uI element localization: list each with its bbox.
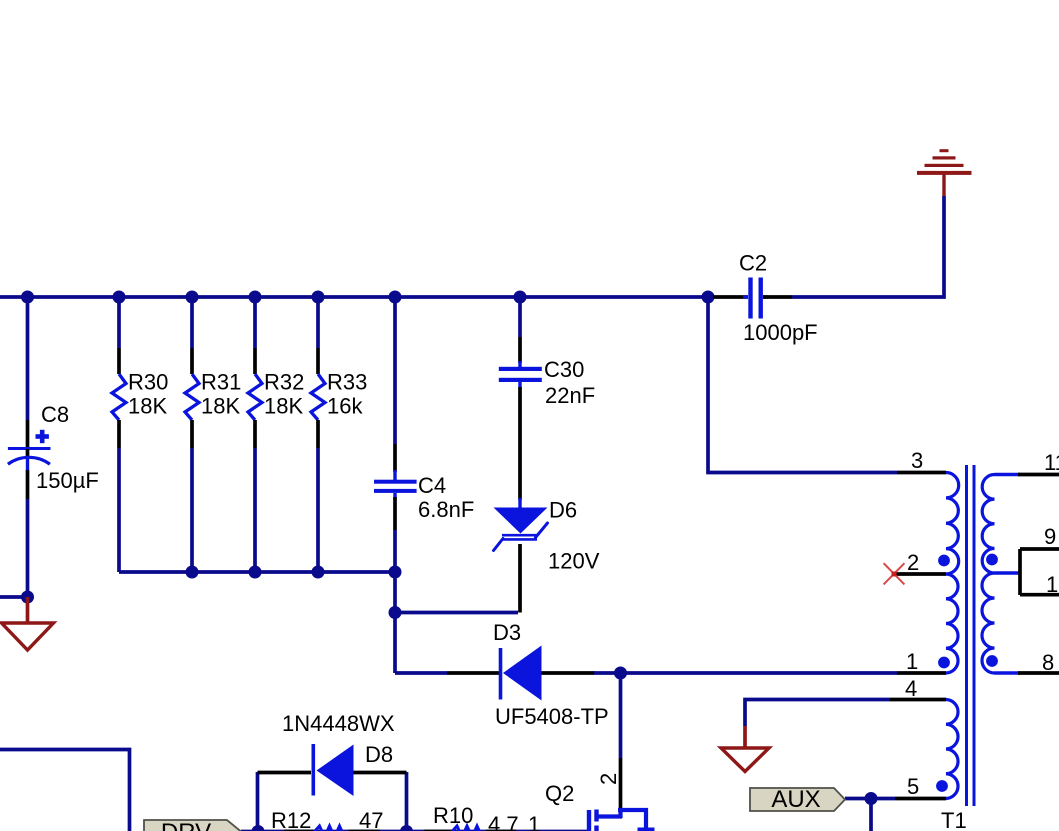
svg-text:18K: 18K [264, 394, 303, 419]
svg-text:47: 47 [359, 808, 383, 831]
svg-text:R32: R32 [264, 370, 304, 395]
T1 pin 3 [897, 448, 946, 473]
pin D6 bottom [518, 544, 522, 613]
svg-text:3: 3 [911, 448, 923, 473]
junction R31 bottom [186, 566, 199, 579]
svg-text:T1: T1 [941, 808, 967, 831]
svg-text:R12: R12 [271, 808, 311, 831]
svg-text:UF5408-TP: UF5408-TP [495, 704, 609, 729]
wire R33 top [316, 297, 320, 348]
T1 designator [941, 808, 967, 831]
junction AUX [865, 792, 878, 805]
wire R31 bottom [190, 448, 194, 572]
ground (C8) [2, 597, 54, 650]
wire C4 bottom [393, 530, 397, 572]
T1 primary winding 2-1 [946, 574, 958, 673]
T1 pin 9/10 bracket [1018, 549, 1022, 595]
T1 pin 10 [1020, 572, 1059, 597]
svg-text:AUX: AUX [771, 786, 820, 813]
capacitor C8 150µF [8, 402, 99, 499]
T1 polarity dot sec lower [986, 655, 998, 667]
wire AUX to T1 pin 5 [845, 797, 895, 801]
junction bus-C30 [514, 291, 527, 304]
junction C4-bus [389, 566, 402, 579]
svg-text:C4: C4 [418, 473, 446, 498]
svg-text:DRV: DRV [161, 819, 211, 831]
svg-text:150µF: 150µF [36, 468, 99, 493]
resistor R33 16k [311, 348, 367, 448]
wire R30 top [117, 297, 121, 348]
svg-text:5: 5 [907, 774, 919, 799]
svg-text:9: 9 [1044, 524, 1056, 549]
junction bus-C8 [21, 291, 34, 304]
T1 primary winding 3-2 [946, 473, 959, 575]
wire C4 top [393, 297, 397, 444]
junction R32 bottom [249, 566, 262, 579]
wire R32 bottom [253, 448, 257, 572]
T1 secondary winding 11-tap [982, 475, 994, 574]
T1 pin 5 [895, 774, 946, 799]
no-connect cross (T1 pin 2) [884, 563, 905, 584]
wire upper-left hook [0, 750, 130, 831]
T1 primary winding 4-5 [946, 700, 958, 799]
wire left edge to C8 ground node [0, 595, 28, 599]
wire C8 bottom [26, 499, 30, 597]
wire D3 node down to Q2 drain [619, 673, 623, 758]
svg-text:Q2: Q2 [545, 781, 574, 806]
diode D3 UF5408-TP [447, 620, 609, 729]
svg-text:R30: R30 [128, 370, 168, 395]
junction D8 right [400, 825, 413, 831]
svg-text:C2: C2 [739, 251, 767, 276]
wire T1 pin 4 to ground [745, 700, 890, 727]
junction D8 left [252, 825, 265, 831]
junction R33 bottom [312, 566, 325, 579]
wire resistor bottom bus [119, 570, 395, 574]
T1 polarity dot pin5 [936, 780, 948, 792]
junction bus-R33 [312, 291, 325, 304]
junction D3-Q2 [614, 667, 627, 680]
wire R33 bottom [316, 448, 320, 572]
port DRV [144, 819, 241, 831]
wire R30 bottom [117, 448, 121, 572]
earth ground (chassis) [917, 149, 972, 196]
junction C8-gnd [21, 591, 34, 604]
svg-text:2: 2 [596, 773, 621, 785]
junction bus-R32 [249, 291, 262, 304]
svg-text:D3: D3 [493, 620, 521, 645]
diode D8 1N4448WX [258, 711, 407, 796]
svg-text:10: 10 [1046, 572, 1059, 597]
svg-text:C30: C30 [544, 357, 584, 382]
junction bus-R30 [113, 291, 126, 304]
T1 pin 9 [1020, 524, 1059, 549]
wire R31 top [190, 297, 194, 348]
T1 polarity dot pin2 [938, 555, 950, 567]
junction bus-C4 [389, 291, 402, 304]
wire C2 right to earth riser [792, 196, 944, 297]
wire node C4 down to D3 row [393, 572, 397, 673]
junction D6 tap [389, 606, 402, 619]
capacitor C4 6.8nF [374, 444, 474, 530]
resistor R31 18K [185, 348, 241, 448]
wire R32 top [253, 297, 257, 348]
svg-text:4: 4 [905, 676, 917, 701]
junction bus-R31 [186, 291, 199, 304]
T1 pin 8 [995, 650, 1059, 675]
T1 polarity dot sec upper [986, 554, 998, 566]
resistor R32 18K [248, 348, 304, 448]
svg-text:120V: 120V [548, 549, 600, 574]
svg-text:R33: R33 [327, 370, 367, 395]
svg-text:D8: D8 [365, 742, 393, 767]
svg-text:1: 1 [906, 649, 918, 674]
transistor Q2 MOSFET [528, 758, 655, 831]
svg-text:C8: C8 [41, 402, 69, 427]
wire node bus to T1 pin 3 [708, 297, 897, 473]
svg-text:8: 8 [1042, 650, 1054, 675]
svg-text:R10: R10 [433, 803, 473, 828]
wire AUX node down [869, 799, 873, 831]
svg-text:R31: R31 [201, 370, 241, 395]
svg-text:1: 1 [528, 812, 540, 831]
capacitor C2 1000pF [713, 251, 818, 346]
resistor R12 47 [271, 808, 383, 831]
svg-text:6.8nF: 6.8nF [418, 497, 474, 522]
wire D8 right leg [405, 772, 409, 831]
resistor R10 4.7 [424, 803, 519, 831]
diode D6 120V TVS [494, 498, 600, 574]
transformer T1 core [967, 465, 975, 806]
svg-text:18K: 18K [128, 394, 167, 419]
wire D3 anode left [395, 671, 447, 675]
T1 pin 2 (n/c) [896, 550, 946, 575]
svg-text:1000pF: 1000pF [743, 320, 818, 345]
resistor R30 18K [112, 348, 168, 448]
wire C30 top [518, 297, 522, 337]
wire D3 cathode to T1 pin 1 [593, 671, 897, 675]
T1 pin 1 [897, 649, 946, 674]
svg-text:18K: 18K [201, 394, 240, 419]
T1 center tap [995, 571, 1022, 574]
wire main top bus [0, 295, 713, 299]
port AUX [750, 786, 845, 813]
wire bottom rail [241, 830, 589, 831]
svg-text:16k: 16k [327, 394, 363, 419]
wire C8 top [26, 297, 30, 420]
ground (T1 pin 4) [721, 726, 769, 772]
svg-text:D6: D6 [549, 498, 577, 523]
capacitor C30 22nF [499, 337, 595, 408]
T1 pin 4 [890, 676, 946, 701]
svg-text:22nF: 22nF [545, 383, 595, 408]
svg-text:2: 2 [907, 550, 919, 575]
pin C30 bottom / D6 top [518, 387, 522, 500]
T1 secondary winding tap-8 [982, 573, 995, 673]
wire D6 bottom tap [395, 611, 518, 615]
T1 pin 11 [995, 450, 1059, 475]
T1 polarity dot pin1 [938, 657, 950, 669]
svg-text:4.7: 4.7 [488, 812, 519, 831]
svg-text:11: 11 [1044, 450, 1059, 475]
wire D8 left leg [256, 772, 260, 831]
svg-text:1N4448WX: 1N4448WX [282, 711, 395, 736]
junction bus-C2 [702, 291, 715, 304]
